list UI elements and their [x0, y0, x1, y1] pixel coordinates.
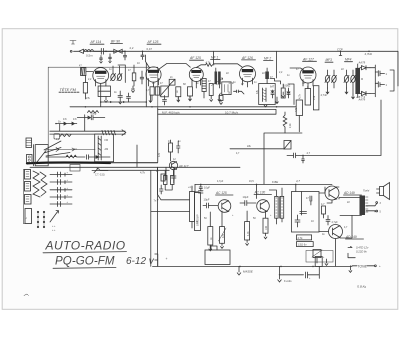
wire left risers bottom [151, 167, 159, 266]
box on bus [70, 165, 80, 172]
diode box D5 [284, 141, 291, 150]
ground G13 MASSE [237, 266, 253, 275]
ground G1 [105, 97, 108, 103]
wire bus y106.8 [70, 106, 296, 108]
wire roof V5 [290, 68, 304, 70]
capacitor C9 [375, 71, 387, 77]
wire thick supply bus [27, 161, 158, 164]
svg-text:2,2: 2,2 [130, 46, 134, 50]
resistor R2 [132, 65, 136, 86]
switch S1 contacts [37, 211, 44, 227]
wire riser x146 [145, 63, 147, 107]
title AUTO-RADIO [43, 239, 127, 253]
antenna mark [70, 41, 76, 45]
capacitor C12 feedthrough [50, 172, 72, 177]
trimmer pair CV1 [111, 66, 123, 81]
svg-text:F: F [24, 217, 28, 219]
transformer T5 MF2 [265, 68, 269, 84]
box screen MF1 [222, 82, 235, 95]
box phono input [34, 145, 49, 166]
svg-text:10μF: 10μF [243, 195, 249, 199]
capacitor C6 [140, 71, 144, 84]
svg-text:Tonhi: Tonhi [363, 189, 370, 193]
wire branch y274.8 [279, 266, 320, 280]
trimmer pair CV4 [325, 70, 337, 88]
node J1 [105, 51, 370, 53]
wire right risers [390, 70, 394, 91]
capacitor C13 feedthrough [50, 179, 72, 184]
svg-text:AF 127: AF 127 [302, 57, 314, 61]
resistor R16 [169, 140, 173, 161]
svg-text:G.B.Kg: G.B.Kg [357, 285, 366, 289]
box screen MF2 [259, 84, 276, 105]
ground G9 [209, 245, 212, 251]
connector block K2 [27, 155, 33, 163]
tube V5 AF127 [300, 67, 316, 89]
svg-text:4,7k: 4,7k [206, 60, 212, 64]
svg-text:10μF: 10μF [204, 185, 210, 189]
label TONE [352, 264, 381, 268]
ground G7 [326, 88, 329, 94]
resistor R12 [281, 84, 285, 98]
transformer T2 driver [269, 188, 283, 224]
bracket left of blocks [23, 170, 24, 224]
resistor R5 [176, 87, 181, 100]
trimmer pair CV5 [344, 70, 356, 94]
mark bottom left [24, 294, 29, 296]
transistor Q1 AF117 [169, 161, 188, 169]
tube V3 AF125b [189, 68, 203, 89]
svg-text:16,5: 16,5 [249, 180, 254, 183]
resistor R8 [219, 96, 223, 103]
resistor R3 [150, 87, 154, 100]
resistor R26 bias [321, 203, 326, 218]
wire riser V1 grid [118, 65, 125, 83]
label Q4 AD149 [343, 191, 362, 195]
wire collectors to T3out [339, 198, 362, 239]
resistor R20 [208, 212, 213, 248]
diode D3 AA79 [358, 61, 371, 70]
svg-text:10μF: 10μF [204, 198, 210, 202]
transistor Q5 AD149 bottom [329, 225, 343, 239]
connector block K3 [25, 170, 31, 180]
transformer box T0 [98, 86, 110, 97]
ground G14 [278, 266, 292, 282]
label tube V3b AF125 [189, 56, 204, 60]
ground G4 [210, 100, 213, 102]
svg-text:4,7k: 4,7k [140, 171, 146, 175]
svg-text:470: 470 [295, 107, 298, 112]
svg-text:100kΩ: 100kΩ [283, 85, 290, 88]
svg-text:FM: FM [105, 139, 108, 142]
svg-text:C.T. 0,5Ω: C.T. 0,5Ω [95, 175, 105, 177]
ground G3 [189, 96, 192, 101]
wire right riser x381 [380, 100, 382, 155]
wire detector right [370, 65, 375, 97]
capacitor C14 feedthrough [50, 187, 72, 192]
coil L3 hatched [202, 79, 206, 99]
svg-text:AF 125: AF 125 [147, 40, 159, 44]
box small corner [54, 134, 60, 140]
wire riser 1k row [60, 115, 85, 131]
ground G8 [345, 88, 354, 99]
resistor R7 [209, 84, 213, 100]
capacitor C7 [271, 90, 274, 98]
svg-text:6AT: 6AT [270, 86, 275, 89]
label tube V2 BF900 [111, 39, 123, 43]
label Q5 AD149 [345, 235, 364, 239]
svg-text:1,5Ω 6v: 1,5Ω 6v [298, 243, 308, 247]
svg-text:+4,5: +4,5 [188, 186, 193, 189]
wire double bus AM [158, 109, 276, 114]
wire y155.4 [287, 151, 381, 163]
capacitor C2 to ground [100, 56, 103, 64]
svg-text:100: 100 [265, 225, 268, 230]
svg-text:6 volts: 6 volts [284, 279, 292, 283]
svg-text:47n: 47n [73, 118, 78, 121]
resistor R16b pair [164, 170, 175, 190]
svg-text:AF 114: AF 114 [90, 40, 102, 44]
transistor Q4 AD149 top [325, 186, 339, 200]
resistor zigzag R15 [60, 134, 71, 137]
tube V1 AF114 [93, 68, 109, 88]
wire box left edge [157, 108, 159, 162]
svg-text:4,7nF: 4,7nF [321, 93, 328, 97]
tuning capacitor CV6 box [95, 134, 114, 162]
resistor R23 [263, 211, 268, 236]
connector block K4 [25, 182, 31, 192]
svg-text:10,7 Mc/s: 10,7 Mc/s [225, 110, 239, 114]
wire zigzag cable A [33, 171, 40, 197]
capacitor C17b [154, 185, 164, 203]
capacitor C19 [172, 171, 177, 183]
capacitor C20 coupling [195, 191, 203, 193]
box vibrator [205, 246, 230, 265]
ground G10 [221, 247, 224, 249]
svg-text:6-12 v: 6-12 v [126, 256, 155, 267]
svg-text:AM: AM [105, 148, 109, 151]
wire y199.8 [158, 195, 190, 200]
potentiometer P3 [312, 250, 322, 264]
transformer T3 output [360, 196, 369, 216]
box tete FM [48, 67, 158, 162]
label Q3 AC130 [254, 191, 272, 195]
label Q2 AC125 [215, 191, 233, 195]
wire riser x276 [276, 51, 278, 78]
transformer T4 MF1 [212, 68, 223, 88]
svg-text:AF 117: AF 117 [178, 164, 189, 168]
wire vert x195 [194, 184, 196, 192]
resistor R1 [83, 76, 87, 100]
resistor R4 [155, 87, 159, 95]
svg-text:CTP: CTP [337, 47, 343, 51]
svg-text:0,47Ω 12v: 0,47Ω 12v [356, 246, 369, 250]
svg-text:4,7μF: 4,7μF [332, 221, 339, 224]
resistor R13 [298, 86, 311, 105]
wire roof V3 [158, 64, 191, 71]
svg-text:+: + [166, 257, 168, 261]
label 100k [283, 85, 290, 88]
label plus [166, 257, 168, 261]
wire terminals [366, 202, 382, 214]
speaker LS1 [377, 183, 390, 200]
capacitor C22 coupling [240, 195, 256, 205]
resistor block R25 [297, 242, 314, 247]
capacitor C21 coupling [203, 198, 218, 208]
resistor R17 vertical squiggle [283, 112, 287, 133]
svg-text:4,7k: 4,7k [298, 236, 304, 240]
ground arrows extra [132, 86, 290, 102]
wire shielded pair [50, 130, 126, 136]
resistor R14 [312, 86, 319, 110]
svg-text:4,7kΩ: 4,7kΩ [365, 52, 373, 56]
label MF3 [325, 58, 333, 62]
label tube V1 AF114 [90, 40, 105, 44]
capacitor C27 [163, 96, 167, 106]
diode D1 pair [106, 49, 125, 53]
label tube V5 AF127 [302, 57, 317, 61]
connector block K6 [24, 209, 32, 224]
wire bases push-pull [319, 187, 339, 232]
wire bus y102 [100, 88, 147, 107]
antenna plug P1 [70, 49, 83, 53]
label +B [356, 95, 365, 99]
wire y149.5 [46, 148, 95, 152]
wire jog MF2 [270, 79, 281, 85]
svg-text:+ B 7,3: + B 7,3 [356, 95, 365, 99]
label GBK [357, 285, 366, 289]
resistor R22 [245, 211, 250, 243]
svg-text:+ +: + + [52, 225, 56, 228]
capacitor C17 [177, 141, 181, 153]
svg-text:PQ-GO-FM: PQ-GO-FM [55, 256, 115, 268]
svg-text:AF 126: AF 126 [241, 56, 253, 60]
svg-text:470: 470 [222, 233, 225, 238]
transistor Q2 AC125 [218, 200, 231, 213]
svg-text:+ +: + + [52, 229, 56, 232]
capacitor C15 feedthrough [50, 194, 72, 199]
svg-text:4,7: 4,7 [321, 203, 325, 206]
capacitor C28 [326, 216, 338, 226]
label 6BE [272, 180, 278, 184]
svg-text:MF 2: MF 2 [264, 57, 271, 61]
svg-text:TÊTE FM: TÊTE FM [60, 87, 77, 92]
potentiometer P2 box [160, 86, 170, 97]
svg-text:AD 149: AD 149 [343, 191, 355, 195]
svg-text:MF3: MF3 [326, 58, 333, 62]
wire audio feed [100, 170, 169, 174]
svg-text:MF4: MF4 [345, 58, 352, 62]
svg-text:2,2k: 2,2k [289, 123, 292, 128]
ground G12 [264, 237, 267, 239]
diode D4 AA79 [358, 91, 371, 101]
resistor R19 [161, 174, 165, 181]
capacitor C11 row [77, 112, 105, 120]
resistor arrow row [55, 119, 77, 125]
svg-text:AUTO-RADIO: AUTO-RADIO [45, 239, 126, 253]
wire risers from detector [158, 167, 175, 194]
fuse F1 [92, 168, 108, 176]
wire tone drop [348, 253, 355, 272]
wire roof V2 [146, 55, 150, 68]
svg-text:4,7μF: 4,7μF [217, 180, 224, 183]
svg-text:+: + [379, 264, 381, 268]
tube V2 AF125 [146, 67, 161, 87]
resistor R6 [188, 87, 193, 99]
svg-text:4,7: 4,7 [307, 151, 311, 155]
wire bus bottom y266.4 [153, 266, 353, 268]
label CTP [337, 47, 343, 55]
wire riser x294 [288, 84, 294, 105]
box tone area [306, 251, 333, 263]
svg-text:0,47: 0,47 [147, 47, 153, 51]
capacitor C5 drop [141, 47, 152, 60]
svg-text:4,7k: 4,7k [298, 93, 302, 99]
svg-text:4,7: 4,7 [296, 179, 300, 183]
wire step y133 [264, 133, 302, 184]
connector block K5 [25, 195, 32, 205]
wire emitter drop [327, 200, 336, 266]
connector block K1 [26, 138, 32, 148]
wire vert x256.5 [256, 184, 258, 198]
wire vert x295.8 [295, 184, 297, 191]
label 4.7u bus [296, 179, 300, 183]
svg-text:TONE: TONE [358, 264, 368, 268]
svg-text:AC 130: AC 130 [254, 191, 266, 195]
wire y167 [30, 145, 240, 167]
label tube V3 AF125 [147, 40, 162, 44]
diode box D2 [169, 79, 175, 85]
svg-text:15k: 15k [312, 95, 316, 100]
label MF4 [345, 58, 353, 62]
ground G6 [264, 97, 278, 107]
transistor Q3 AC130 [257, 200, 270, 213]
label 0.47ohm [348, 246, 369, 254]
capacitor C26 [127, 93, 131, 102]
wire corner bracket [155, 254, 158, 266]
resistor R21 [219, 211, 227, 246]
coil L1 0.5m lead [84, 50, 94, 58]
ground G11 [246, 244, 249, 246]
wire bus y184.4 [195, 184, 332, 186]
transformer ratio detector T3 [355, 64, 360, 98]
label tete FM [59, 87, 79, 92]
capacitor C23 above bus [315, 257, 328, 267]
capacitor C10 [375, 82, 387, 88]
capacitor C3 to ground [109, 54, 112, 63]
resistor block R24 [297, 235, 312, 240]
capacitor C4 drop [123, 46, 133, 60]
wire top bus [84, 51, 398, 86]
wire y148.8 [230, 148, 284, 150]
value labels texture [56, 62, 363, 240]
label tube V4 AF126 [241, 56, 256, 60]
svg-text:AA79: AA79 [358, 61, 366, 65]
resistor squiggle row [88, 111, 99, 114]
wire zigzag cable B [40, 172, 47, 196]
svg-text:M.F. 460 kc/s: M.F. 460 kc/s [162, 110, 180, 114]
svg-text:470: 470 [158, 152, 161, 157]
svg-text:AF 125: AF 125 [189, 56, 201, 60]
svg-text:MF 1: MF 1 [211, 55, 218, 59]
svg-text:AC 125: AC 125 [215, 191, 227, 195]
ground G2 [177, 97, 180, 102]
svg-text:0,5m: 0,5m [86, 54, 93, 58]
label 6AT [270, 86, 275, 89]
transformer T1 interstage [190, 186, 201, 231]
switch S1 wiper [50, 211, 59, 233]
capacitor C8 [287, 90, 290, 98]
label 4.7k top right [365, 52, 373, 56]
label MF1 [211, 55, 221, 59]
capacitor C24 [234, 90, 245, 94]
wire diagonals left [37, 141, 70, 162]
svg-text:M: M [361, 78, 363, 81]
resistor R27 zigzag roof [196, 60, 214, 67]
svg-text:4,7k: 4,7k [247, 231, 250, 236]
svg-text:47n: 47n [63, 118, 68, 121]
capacitor C1 series [94, 48, 106, 54]
wire riser x213 [213, 51, 215, 64]
ground G5 [218, 94, 222, 104]
resistor R18 [296, 100, 302, 132]
wire roof V4 [214, 64, 243, 67]
svg-text:BF 90: BF 90 [111, 39, 120, 43]
svg-text:0,22Ω 6v: 0,22Ω 6v [356, 250, 368, 254]
box output bias [292, 192, 320, 233]
title PQ-GO-FM [53, 256, 155, 269]
tube V4 AF126 [240, 66, 256, 87]
label MF2 [264, 57, 274, 61]
wire y211.5 [151, 211, 190, 213]
label speaker [363, 189, 370, 193]
coil L2 hatched [81, 68, 93, 76]
wire y157 with parts [46, 155, 110, 159]
label 4.7nF [321, 93, 328, 97]
svg-text:6 BE: 6 BE [272, 180, 278, 184]
capacitor C16 feedthrough [50, 201, 72, 206]
capacitor C25 [118, 91, 122, 104]
svg-text:MASSE: MASSE [243, 270, 253, 274]
capacitor C18 on bus [199, 184, 210, 191]
